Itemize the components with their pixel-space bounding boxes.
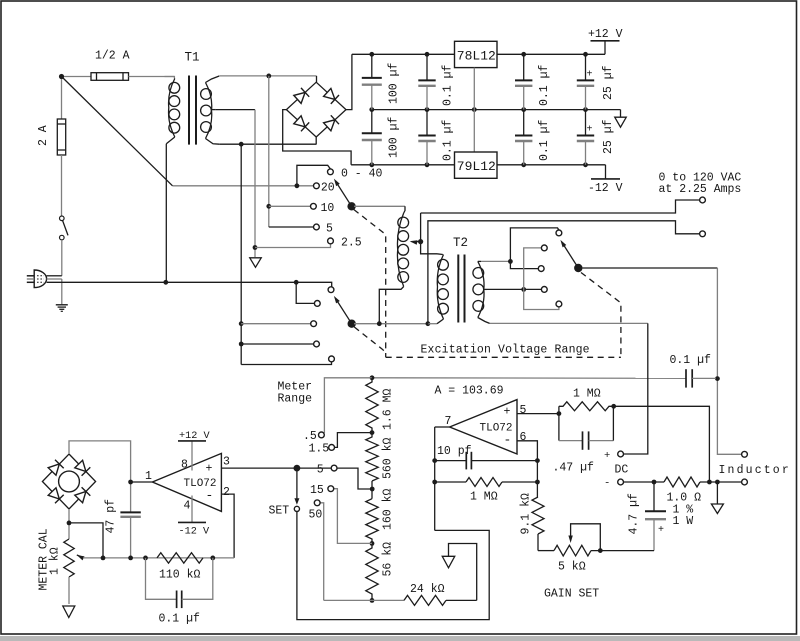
resistor R8 1.0 ohm (664, 477, 742, 487)
svg-text:100 µf: 100 µf (388, 116, 401, 158)
svg-text:1 MΩ: 1 MΩ (573, 388, 601, 401)
pin 4 label (184, 499, 191, 512)
svg-text:4.7 µf: 4.7 µf (628, 493, 641, 535)
svg-text:+12 V: +12 V (588, 28, 623, 41)
node A: AC hot junction (59, 74, 64, 79)
wire hot down to fuse F2 (61, 79, 63, 119)
switch S2 deck3 contact c3 (538, 266, 544, 272)
ground meter cal (63, 606, 75, 618)
switch S2 deck2 contact c5 (329, 356, 335, 362)
linkage deck2 dashed (354, 327, 385, 354)
pin 7 label (445, 415, 452, 428)
transformer T2 secondary winding (473, 261, 490, 323)
label Inductor (719, 464, 791, 477)
label R11 1.6 Mohm (382, 388, 395, 430)
fuse F1 1/2 A (91, 73, 129, 81)
resistor R13 160 kohm (366, 499, 378, 546)
capacitor C14 0.1 uf (146, 558, 213, 608)
transformer T1 core (189, 76, 196, 145)
switch S2 deck1 contact 2.5 (328, 238, 334, 244)
wire AC neutral (47, 280, 299, 285)
svg-text:100 µf: 100 µf (388, 62, 401, 104)
wire BR2 top to C13 (69, 441, 133, 513)
wire to contact 5 (269, 226, 314, 228)
switch S2 deck3 wiper (560, 240, 582, 272)
svg-text:2: 2 (223, 486, 230, 499)
wire positive rail +V (352, 52, 605, 57)
label 4.7 uf (628, 493, 641, 535)
terminal Inductor 2 (742, 479, 748, 485)
label T1 (185, 51, 200, 65)
svg-text:Range: Range (278, 393, 313, 406)
wire meter feedback row (83, 556, 234, 561)
transformer T2 primary winding (437, 254, 448, 324)
wire hot to deck1 contacts (173, 165, 331, 188)
svg-text:-12 V: -12 V (588, 182, 623, 195)
op-amp U2 TLO72 (450, 400, 517, 454)
power +12 V (588, 28, 623, 54)
svg-text:6: 6 (520, 431, 527, 444)
wire fuse F1 to T1 primary (129, 76, 175, 78)
label C1 100 uf (388, 62, 401, 104)
switch S2 deck1 contact 10 (311, 203, 317, 209)
resistor R10 110 kohm (157, 553, 203, 563)
diode bridge BR1 (286, 82, 346, 137)
label C6 0.1 uf (538, 119, 551, 161)
svg-text:-: - (604, 478, 610, 490)
wire T1 secondary bottom (219, 142, 316, 147)
wire BR1 right to positive rail (346, 54, 352, 109)
svg-text:1 W: 1 W (673, 515, 694, 528)
switch S2 deck2 contact c4 (314, 341, 320, 347)
wire switch S1 to plug (61, 240, 63, 276)
label 1 percent (673, 504, 694, 517)
regulator U3 78L12 (455, 41, 498, 67)
wire diagonal hot to range switch (62, 77, 173, 186)
wire fuse F2 to switch S1 (61, 155, 63, 216)
switch S2 deck3 contact c2 (541, 245, 547, 251)
label 5 (326, 223, 333, 236)
svg-text:0.1 µf: 0.1 µf (159, 612, 201, 625)
label C13 47 pf (105, 499, 118, 534)
label 2.5 (341, 237, 362, 250)
power +12 V U1 (178, 431, 210, 471)
wire line A to VAC terminal 1 (421, 200, 700, 213)
pot R7 5 kohm (538, 524, 654, 556)
linkage deck3 dashed (581, 273, 621, 358)
excitation voltage range box bottom dashed (386, 356, 621, 358)
label C2 100 uf (388, 116, 401, 158)
svg-text:10 pf: 10 pf (437, 445, 472, 458)
label R4 1 Mohm (573, 388, 601, 401)
label 0 to 120 VAC (659, 172, 742, 185)
terminal DC minus (604, 478, 623, 490)
wire plug hot (47, 275, 62, 277)
wire U2 output pin 7 (432, 427, 449, 530)
wire deck3 c2 c5 bus (524, 248, 559, 310)
pin 8 label (181, 459, 188, 472)
svg-text:78L12: 78L12 (457, 49, 496, 64)
svg-text:20: 20 (321, 181, 335, 194)
resistor R4 1 Mohm servo (559, 402, 616, 414)
wire BR1 left to negative rail (283, 110, 351, 165)
svg-text:5 kΩ: 5 kΩ (558, 561, 586, 574)
wire negative rail -V (351, 162, 605, 167)
svg-text:+: + (206, 463, 213, 476)
wire U1 output pin 1 (131, 481, 153, 483)
resistor R6 9.1 kohm (532, 497, 544, 551)
svg-text:-: - (206, 488, 214, 503)
variable transformer winding (379, 206, 408, 323)
svg-text:-12 V: -12 V (179, 527, 210, 538)
svg-text:1.6 MΩ: 1.6 MΩ (382, 388, 395, 430)
capacitor C9 0.1 uf (372, 369, 716, 387)
switch S2 deck1 wiper (334, 179, 356, 211)
pin 3 label (223, 456, 230, 469)
wire plug ground prong (47, 279, 62, 304)
svg-text:25 µf: 25 µf (602, 65, 615, 100)
meter bridge BR2 (42, 454, 95, 509)
wire SET to U2 output (297, 512, 489, 620)
terminal VAC 2 (700, 231, 706, 237)
power -12 V (588, 165, 623, 195)
svg-text:Excitation Voltage Range: Excitation Voltage Range (421, 344, 590, 357)
label 1 W (673, 515, 694, 528)
wire U1 pin 2 (221, 494, 234, 558)
svg-text:1.5: 1.5 (309, 443, 330, 456)
label R6 9.1 kohm (520, 493, 533, 535)
label R10 110 kohm (159, 569, 201, 582)
wire T1 primary bottom to neutral (165, 144, 167, 283)
pot R9 METER CAL 1 kohm (64, 539, 85, 604)
svg-text:GAIN SET: GAIN SET (544, 588, 599, 601)
label 20 (321, 181, 335, 194)
label R9 1 kohm (49, 547, 62, 575)
wire deck3 wiper to inductor terminal (583, 268, 742, 454)
ground 24k return (442, 544, 476, 601)
label 1.0 ohm (667, 492, 702, 505)
resistor R12 560 kohm (366, 433, 378, 499)
svg-text:10: 10 (321, 202, 335, 215)
svg-text:T1: T1 (185, 51, 200, 65)
wire deck2 wiper to T2 primary (354, 321, 437, 326)
label C5 0.1 uf (538, 64, 551, 106)
label 0 - 40 (341, 168, 383, 181)
label R12 560 kohm (382, 437, 395, 479)
label C7 25 uf (602, 65, 615, 100)
svg-text:2.5: 2.5 (341, 237, 362, 250)
wire hot to fuse F1 (64, 76, 91, 78)
svg-text:0.1 µf: 0.1 µf (442, 64, 455, 106)
svg-text:+: + (587, 125, 593, 136)
switch contact 15 (310, 484, 372, 543)
power -12 V U1 (178, 496, 210, 538)
switch SET pushbutton (269, 468, 300, 517)
ground center tap (250, 258, 262, 268)
terminal Inductor 1 (742, 451, 748, 457)
svg-text:15: 15 (310, 484, 324, 497)
svg-text:Inductor: Inductor (719, 464, 791, 477)
terminal VAC 1 (700, 197, 706, 203)
svg-text:5: 5 (326, 223, 333, 236)
label T2 (453, 236, 468, 250)
label R5 1 Mohm (470, 490, 498, 503)
capacitor C7 25 uf (577, 54, 594, 109)
label METER CAL (38, 528, 51, 590)
wire BR2 bottom (67, 509, 103, 558)
svg-text:1 MΩ: 1 MΩ (470, 490, 498, 503)
switch S2 deck1 contact 5 (314, 224, 320, 230)
label C11 .47 uf (553, 462, 595, 475)
capacitor C11 .47 uf (559, 406, 614, 450)
wire T2 secondary mid tap to deck3 (487, 287, 541, 292)
svg-text:110 kΩ: 110 kΩ (159, 569, 201, 582)
capacitor C13 47 pf (120, 512, 140, 558)
switch contact 50 (309, 500, 324, 601)
switch S2 deck1 contact 20 (314, 183, 320, 189)
svg-text:1 kΩ: 1 kΩ (49, 547, 62, 575)
svg-text:5: 5 (317, 464, 324, 477)
wire variac tap up to VAC line A (420, 213, 422, 242)
ground inductor return (711, 482, 723, 514)
wire T2 secondary top to deck3 (481, 259, 513, 264)
label Meter Range (278, 381, 313, 406)
variac tap arrow (410, 239, 424, 245)
svg-text:7: 7 (445, 415, 452, 428)
svg-text:0.1 µf: 0.1 µf (538, 119, 551, 161)
wire neutral to deck2 contacts (296, 282, 332, 303)
svg-text:1: 1 (145, 470, 152, 483)
wire T1 bottom to deck2 contacts (239, 144, 332, 364)
capacitor C8 25 uf (577, 110, 594, 165)
earth ground at plug (56, 305, 68, 312)
wire servo to DC minus node (614, 406, 710, 482)
wire T1 top tap to contact 10 (266, 76, 310, 227)
transformer T2 core (458, 255, 464, 323)
wire T1 center tap (216, 109, 255, 111)
resistor R15 24 kohm (404, 595, 477, 605)
svg-text:+: + (604, 450, 610, 462)
label C8 25 uf (602, 119, 615, 154)
svg-text:3: 3 (223, 456, 230, 469)
wire T2 secondary bottom (490, 322, 648, 324)
wire divider top (324, 375, 374, 433)
capacitor C2 100 uf (362, 110, 382, 165)
pin 1 label (145, 470, 152, 483)
resistor R11 1.6 Mohm (366, 378, 378, 435)
svg-text:+12 V: +12 V (179, 431, 210, 442)
resistor R14 56 kohm (366, 543, 378, 602)
switch S2 deck2 contact c1 (328, 287, 334, 293)
wire BR1 bottom (315, 137, 317, 144)
svg-text:T2: T2 (453, 236, 468, 250)
wire deck3 to contact c3 (510, 261, 538, 268)
wire line B to VAC terminal 2 (428, 221, 700, 324)
svg-text:1/2 A: 1/2 A (95, 50, 130, 63)
capacitor C12 10 pf (435, 452, 538, 470)
AC plug P1 (27, 270, 47, 288)
switch S2 deck2 contact c3 (311, 321, 317, 327)
svg-text:8: 8 (181, 459, 188, 472)
capacitor C4 0.1 uf (418, 110, 435, 165)
svg-text:5: 5 (520, 404, 527, 417)
wire T1 secondary top (219, 74, 316, 83)
svg-text:+: + (658, 525, 664, 536)
svg-text:24 kΩ: 24 kΩ (410, 583, 445, 596)
label A = 103.69 (435, 385, 504, 398)
svg-text:160 kΩ: 160 kΩ (382, 488, 395, 530)
switch contact .5 (303, 430, 324, 443)
label C9 0.1 uf (670, 354, 712, 367)
label C14 0.1 uf (159, 612, 201, 625)
switch S2 deck2 contact c2 (314, 301, 320, 307)
label GAIN SET (544, 588, 599, 601)
capacitor C5 0.1 uf (515, 54, 532, 109)
svg-text:+: + (504, 406, 511, 419)
switch S2 deck1 contact 0-40 (328, 169, 334, 175)
wire divider bottom rail (324, 599, 404, 601)
svg-text:56 kΩ: 56 kΩ (382, 542, 395, 577)
capacitor C6 0.1 uf (515, 110, 532, 165)
label Excitation Voltage Range (421, 344, 590, 357)
wire DC minus row (623, 480, 664, 485)
label DC (615, 464, 629, 477)
svg-text:0.1 µf: 0.1 µf (442, 119, 455, 161)
capacitor C1 100 uf (362, 54, 382, 109)
resistor R5 1 Mohm feedback (435, 478, 538, 487)
svg-text:.5: .5 (303, 430, 317, 443)
capacitor C10 4.7 uf (645, 482, 666, 551)
switch contact 1.5 (309, 433, 373, 456)
svg-text:47 pf: 47 pf (105, 499, 118, 534)
svg-text:2 A: 2 A (37, 125, 50, 146)
wire variac tap down to T2 primary top (421, 242, 437, 254)
svg-text:560 kΩ: 560 kΩ (382, 437, 395, 479)
op-amp U1 TLO72 (152, 453, 221, 511)
switch S2 deck3 contact c5 (556, 301, 562, 307)
transformer T1 secondary winding (201, 76, 220, 144)
switch S2 deck3 contact c4 (541, 287, 547, 293)
pin 5 label (520, 404, 527, 417)
fuse F2 2 A (57, 119, 65, 155)
label R13 160 kohm (382, 488, 395, 530)
switch contact 5 meter (317, 464, 372, 490)
svg-text:9.1 kΩ: 9.1 kΩ (520, 493, 533, 535)
label 10 (321, 202, 335, 215)
svg-text:DC: DC (615, 464, 629, 477)
transformer T1 primary winding (165, 77, 180, 144)
wire T2 bottom down to DC plus (623, 323, 647, 454)
label C3 0.1 uf (442, 64, 455, 106)
svg-text:0.1 µf: 0.1 µf (670, 354, 712, 367)
wire deck1 wiper to variac (354, 205, 405, 207)
wire center tap down (253, 110, 331, 257)
switch S2 deck2 wiper (334, 296, 356, 328)
svg-text:50: 50 (309, 509, 323, 522)
label R7 5 kohm (558, 561, 586, 574)
svg-text:0 - 40: 0 - 40 (341, 168, 383, 181)
svg-text:0.1 µf: 0.1 µf (538, 64, 551, 106)
svg-text:.47 µf: .47 µf (553, 462, 595, 475)
regulator U3 common pin wire (473, 68, 475, 152)
pin 6 label (520, 431, 527, 444)
regulator U4 79L12 (455, 152, 498, 178)
svg-text:79L12: 79L12 (457, 159, 496, 174)
svg-text:SET: SET (269, 505, 290, 518)
svg-text:+: + (587, 70, 593, 81)
switch S1 power (60, 216, 69, 240)
capacitor C3 0.1 uf (418, 54, 435, 109)
wire deck3 frame to contact c1 (510, 228, 559, 262)
svg-text:A = 103.69: A = 103.69 (435, 385, 504, 398)
label R14 56 kohm (382, 542, 395, 577)
ground mid rail (615, 117, 627, 127)
wire U2 pin 5 (517, 411, 561, 416)
label at 2.25 Amps (659, 183, 742, 196)
label 1/2 A (95, 50, 130, 63)
wire U1 pin 3 to meter range (221, 465, 331, 472)
wire zero volt mid rail (369, 107, 620, 117)
svg-text:25 µf: 25 µf (602, 119, 615, 154)
svg-text:-: - (504, 432, 512, 447)
label C12 10 pf (437, 445, 472, 458)
label 2 A (37, 125, 50, 146)
svg-text:at 2.25 Amps: at 2.25 Amps (659, 183, 742, 196)
label R15 24 kohm (410, 583, 445, 596)
pin 2 label (223, 486, 230, 499)
wire U2 pin 6 (517, 441, 540, 497)
linkage deck1 dashed (354, 210, 386, 358)
label C4 0.1 uf (442, 119, 455, 161)
terminal DC plus (604, 450, 623, 462)
svg-text:4: 4 (184, 499, 191, 512)
switch S2 deck3 contact c1 (556, 230, 562, 236)
